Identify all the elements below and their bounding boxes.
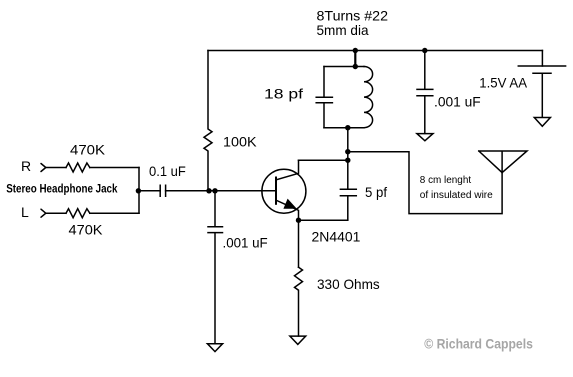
antenna (479, 151, 527, 173)
node emitter (296, 218, 301, 223)
svg-text:1.5V AA: 1.5V AA (479, 75, 527, 91)
capacitor .001 uF (supply bypass) (417, 51, 433, 134)
inductor L1 coil (364, 67, 373, 128)
transistor emitter line (277, 200, 299, 220)
ground (battery) (534, 118, 550, 127)
svg-text:2N4401: 2N4401 (312, 229, 361, 245)
svg-text:5mm dia: 5mm dia (317, 22, 369, 38)
node tank bottom (345, 125, 350, 130)
input connector R (41, 164, 46, 172)
resistor 100K (204, 51, 212, 191)
resistor 470K (L channel) (66, 209, 90, 218)
svg-text:.001 uF: .001 uF (434, 94, 481, 110)
svg-text:Stereo Headphone Jack: Stereo Headphone Jack (6, 181, 118, 195)
ground (base bypass cap) (207, 344, 222, 352)
capacitor .001 uF (base bypass) (208, 191, 223, 344)
svg-text:5 pf: 5 pf (365, 184, 387, 200)
node base junction 2 (212, 188, 217, 193)
transistor emitter arrow (283, 199, 296, 209)
svg-text:R: R (21, 158, 31, 174)
svg-text:18 pf: 18 pf (264, 86, 303, 102)
transistor collector line (277, 160, 299, 180)
node tank top (353, 64, 358, 69)
svg-text:of insulated wire: of insulated wire (420, 190, 493, 201)
tank circuit left branch and capacitor 18 pf (316, 67, 332, 128)
ground (emitter resistor) (290, 336, 306, 344)
svg-text:470K: 470K (70, 142, 106, 158)
battery 1.5V AA (518, 66, 565, 117)
resistor 330 Ohms (295, 267, 303, 336)
node jack junction (136, 188, 141, 193)
ground (supply bypass cap) (417, 134, 433, 141)
wire emitter node to 330 ohm resistor (298, 220, 300, 267)
wire tank top to rail (354, 51, 356, 67)
svg-text:.001 uF: .001 uF (223, 235, 268, 251)
wire collector to node B (299, 159, 348, 161)
transistor base bar (275, 178, 277, 204)
svg-text:0.1 uF: 0.1 uF (149, 163, 186, 179)
wire resistor R to jack vertical (90, 167, 139, 169)
wire rail to battery (541, 51, 543, 67)
wire antenna feed (348, 152, 502, 214)
wire emitter to 5pf bottom (299, 219, 348, 221)
wire jack vertical (138, 168, 140, 214)
node B collector (345, 158, 350, 163)
capacitor 5 pf (340, 160, 356, 219)
node A antenna tap (345, 149, 350, 154)
transistor Q1 2N4401 body (262, 169, 306, 213)
wire resistor L to jack vertical (90, 212, 139, 214)
svg-text:L: L (21, 204, 29, 220)
node rail-bypass cap (422, 48, 427, 53)
capacitor 0.1 uF (160, 185, 165, 196)
wire coupling cap to base (166, 190, 276, 192)
wire junction to coupling cap (139, 190, 160, 192)
svg-text:8 cm lenght: 8 cm lenght (420, 175, 472, 186)
node base junction 1 (206, 188, 211, 193)
input connector L (41, 209, 46, 217)
resistor 470K (R channel) (66, 163, 90, 172)
svg-text:470K: 470K (69, 222, 104, 238)
svg-text:© Richard Cappels: © Richard Cappels (424, 336, 533, 352)
tank top wire (324, 66, 364, 68)
tank bottom wire (324, 127, 364, 129)
wire R input to resistor (46, 167, 66, 169)
svg-text:100K: 100K (223, 134, 257, 150)
wire node chain to tank bottom (347, 128, 349, 161)
svg-text:330 Ohms: 330 Ohms (317, 276, 380, 292)
wire L input to resistor (46, 212, 66, 214)
top rail wire (208, 50, 542, 52)
node rail-tank (353, 48, 358, 53)
